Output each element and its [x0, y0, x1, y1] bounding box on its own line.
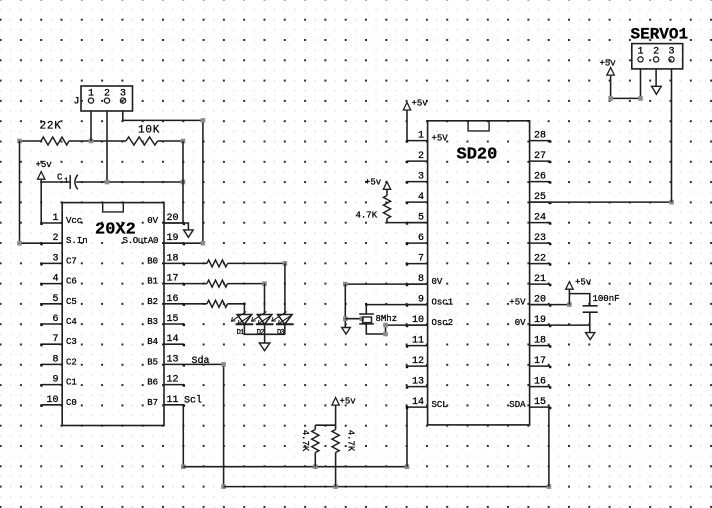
wire 0V to crystal case — [345, 318, 362, 320]
IC U1 pin 1 stub — [40, 223, 62, 225]
svg-text:11: 11 — [167, 395, 179, 406]
IC U1 pin 12 label B6 — [147, 378, 158, 388]
junction C1 row right end — [181, 180, 186, 185]
IC U1 pin 8 number — [52, 354, 58, 365]
power +5v arrow (pin5) — [383, 182, 390, 190]
junction Scl top corner — [181, 464, 186, 469]
svg-text:14: 14 — [167, 334, 179, 345]
svg-text:C7: C7 — [66, 256, 77, 266]
wire Vcc rail down — [40, 182, 42, 223]
svg-text:22K: 22K — [40, 120, 62, 132]
wire servo pin2 drop — [655, 69, 657, 86]
svg-text:6: 6 — [418, 233, 424, 244]
IC U1 pin 16 label B2 — [147, 297, 158, 307]
wire LED D2 cathode drop — [264, 324, 266, 334]
svg-text:+5v: +5v — [36, 160, 53, 170]
wire Scl from pin11 — [182, 405, 184, 467]
IC U1 pin 4 number — [52, 274, 58, 285]
IC U1 pin 8 label C2 — [66, 357, 77, 367]
IC U2 pin 9 label Osc1 — [432, 298, 454, 308]
IC U2 pin 13 number — [412, 377, 424, 388]
capacitor C1 plate — [69, 175, 71, 189]
wire cap to junctions — [76, 181, 183, 183]
svg-text:SD20: SD20 — [457, 145, 498, 164]
svg-text:4: 4 — [418, 192, 424, 203]
IC U1 pin 15 stub — [164, 324, 185, 326]
svg-text:23: 23 — [534, 233, 546, 244]
wire Osc1 row — [366, 304, 427, 306]
svg-text:27: 27 — [534, 151, 546, 162]
junction Sda corner — [221, 362, 226, 367]
wire pin20 extension — [530, 304, 570, 306]
svg-text:18: 18 — [534, 336, 546, 347]
svg-text:+5v: +5v — [412, 99, 429, 109]
wire servo pin3 drop — [671, 69, 673, 202]
IC U2 pin 15 label SDA — [509, 400, 526, 410]
svg-text:C4: C4 — [66, 317, 77, 327]
IC U2 pin 8 number — [418, 274, 424, 285]
svg-text:11: 11 — [412, 336, 424, 347]
IC U1 pin 4 stub — [40, 283, 62, 285]
resistor R4 (pin 17 row) — [184, 280, 265, 287]
IC U2 pin 20 number — [534, 295, 546, 306]
IC U2 pin 25 stub — [530, 202, 552, 204]
IC U1 pin 19 number — [167, 233, 179, 244]
IC U2 pin 16 stub — [530, 386, 552, 388]
label R2 10K — [138, 124, 160, 136]
svg-text:17: 17 — [167, 274, 179, 285]
IC U2 pin 17 stub — [530, 366, 552, 368]
svg-text:C1: C1 — [66, 378, 77, 388]
corner SD20 pin14 — [406, 406, 408, 408]
svg-text:4.7K: 4.7K — [346, 430, 356, 452]
IC U2 pin 26 stub — [530, 181, 552, 183]
IC U2 pin 11 number — [412, 336, 424, 347]
IC U2 pin 10 stub — [406, 325, 428, 327]
resistor R1 22K — [41, 137, 69, 145]
IC U1 pin 2 number — [52, 233, 58, 244]
power +5v arrow (pullups) — [332, 398, 339, 426]
IC U2 pin 13 stub — [406, 386, 428, 388]
svg-text:10K: 10K — [138, 124, 160, 136]
IC U1 pin 5 label C5 — [66, 297, 77, 307]
wire LED D3 cathode drop — [284, 324, 286, 334]
svg-text:13: 13 — [167, 354, 179, 365]
IC U1 pin 9 number — [52, 375, 58, 386]
junction servo +5v corner — [608, 96, 613, 101]
connector J pin 3 circle — [120, 98, 125, 103]
svg-text:+5v: +5v — [575, 278, 592, 288]
wire Osc1 drop to crystal — [365, 305, 367, 314]
connector SERVO1 pin 3 number — [668, 46, 674, 57]
IC U2 pin 19 stub — [530, 325, 552, 327]
wire Sda from pin13 — [184, 364, 224, 486]
svg-text:SDA: SDA — [509, 400, 526, 410]
IC U1 pin 17 label B1 — [147, 277, 158, 287]
svg-text:15: 15 — [167, 314, 179, 325]
svg-text:5: 5 — [52, 294, 58, 305]
IC U2 pin 15 stub — [530, 407, 552, 409]
IC U1 pin 11 label B7 — [147, 398, 158, 408]
resistor R8 4.7K (pin5) — [383, 189, 390, 222]
IC U2 pin 15 number — [534, 397, 546, 408]
IC U2 pin 25 number — [534, 192, 546, 203]
svg-text:Scl: Scl — [184, 395, 202, 407]
junction 0V-crystal tee — [343, 316, 348, 321]
LED D3 — [272, 312, 294, 325]
label +5v (pin5) — [365, 177, 382, 187]
svg-text:B4: B4 — [147, 337, 158, 347]
IC U1 pin 16 number — [167, 294, 179, 305]
corner pin 16 — [243, 303, 245, 305]
junction 0V corner — [343, 282, 348, 287]
svg-text:D1: D1 — [237, 329, 244, 337]
svg-text:SCL: SCL — [432, 400, 448, 410]
IC U1 pin 13 number — [167, 354, 179, 365]
IC U1 pin 7 label C3 — [66, 337, 77, 347]
IC U2 pin 26 number — [534, 172, 546, 183]
junction Osc2 route high — [383, 323, 388, 328]
corner Osc1 — [365, 303, 367, 305]
junction SDA at pullup — [333, 484, 338, 489]
junction 10K right end — [181, 139, 186, 144]
svg-text:S.In: S.In — [66, 236, 88, 246]
ground (20X2 pin20) — [184, 230, 194, 237]
junction pin19 net end — [201, 241, 206, 246]
connector SERVO1 body — [632, 44, 683, 69]
capacitor C1 curved plate — [75, 175, 78, 190]
wire servo pin1 route — [611, 69, 641, 99]
wire pin 16 drop to LED — [243, 304, 245, 315]
svg-text:C6: C6 — [66, 277, 77, 287]
crystal X1 body — [363, 317, 372, 323]
connector SERVO1 pin 1 number — [637, 46, 643, 57]
junction Osc2 route low — [383, 332, 388, 337]
svg-text:C0: C0 — [66, 398, 77, 408]
wire 0V down — [344, 284, 346, 327]
svg-text:Vcc: Vcc — [66, 216, 82, 226]
IC U2 pin 16 number — [534, 377, 546, 388]
IC U2 pin 20 label +5V — [509, 298, 526, 308]
svg-text:2: 2 — [52, 233, 58, 244]
svg-text:3: 3 — [52, 253, 58, 264]
junction pin 17 corner — [262, 281, 267, 286]
svg-text:1: 1 — [418, 131, 424, 142]
IC U2 pin 27 number — [534, 151, 546, 162]
IC U1 pin 1 number — [52, 213, 58, 224]
label D3 — [277, 329, 284, 337]
connector J pin 1 circle — [88, 98, 93, 103]
IC U2 pin 5 number — [418, 213, 424, 224]
wire LED bus to ground — [264, 334, 266, 343]
IC U1 pin 18 label B0 — [147, 256, 158, 266]
resistor R3 (pin 18 row) — [184, 260, 285, 267]
label +5v (pullups) — [340, 397, 357, 407]
power +5v arrow (SD20 pin1) — [403, 102, 410, 140]
svg-text:0V: 0V — [515, 318, 526, 328]
IC U2 pin 14 label SCL — [432, 400, 448, 410]
IC U2 pin 5 stub — [406, 222, 428, 224]
connector SERVO1 pin 2 number — [653, 46, 659, 57]
IC U2 pin 4 stub — [406, 202, 428, 204]
svg-text:24: 24 — [534, 213, 546, 224]
label R6 4.7K — [300, 430, 310, 452]
label Sda — [192, 355, 210, 367]
connector J body — [81, 86, 133, 111]
svg-text:1: 1 — [52, 213, 58, 224]
IC U2 pin 22 number — [534, 254, 546, 265]
ground (100nF) — [586, 333, 595, 340]
IC U1 notch — [103, 203, 124, 212]
junction crystal case — [360, 316, 365, 321]
IC U1 pin 5 number — [52, 294, 58, 305]
IC U2 notch — [468, 121, 489, 131]
junction pin20 end — [567, 302, 572, 307]
IC U2 pin 20 stub — [530, 304, 552, 306]
svg-text:2: 2 — [418, 151, 424, 162]
svg-text:B0: B0 — [147, 256, 158, 266]
resistor R5 (pin 16 row) — [184, 300, 245, 307]
label R7 4.7K — [346, 430, 356, 452]
IC U2 pin 7 stub — [406, 263, 428, 265]
IC U1 pin 10 stub — [40, 405, 62, 407]
wire SCL up to SD20 pin14 — [406, 407, 408, 467]
connector SERVO1 pin 2 circle — [654, 57, 659, 62]
IC U2 pin 23 stub — [530, 243, 552, 245]
IC U2 pin 18 number — [534, 336, 546, 347]
label +5v (SD20 pin1) — [412, 99, 429, 109]
wire J pin2 drop — [106, 111, 108, 182]
svg-text:B3: B3 — [147, 317, 158, 327]
wire crystal to Osc2 — [366, 324, 427, 334]
svg-text:C2: C2 — [66, 357, 77, 367]
junction SDA right end — [547, 484, 552, 489]
svg-text:B7: B7 — [147, 398, 158, 408]
IC U2 pin 27 stub — [530, 161, 552, 163]
svg-text:B5: B5 — [147, 357, 158, 367]
svg-text:1: 1 — [64, 178, 68, 186]
connector J pin 2 number — [104, 88, 110, 99]
junction J pin2 end — [105, 180, 110, 185]
wire pin 17 drop to LED — [264, 284, 266, 315]
IC U2 pin 12 number — [412, 356, 424, 367]
IC U1 pin 13 stub — [164, 364, 185, 366]
label X1 8Mhz — [376, 314, 398, 324]
wire pin25 to servo — [530, 201, 672, 203]
svg-text:C: C — [57, 173, 63, 183]
junction 22K row left end — [17, 139, 22, 144]
IC U2 pin 3 number — [418, 172, 424, 183]
IC U2 pin 21 stub — [530, 284, 552, 286]
svg-text:D2: D2 — [257, 329, 264, 337]
IC U1 PICAXE 20X2 body — [62, 203, 164, 426]
IC U2 pin 10 number — [412, 315, 424, 326]
wire 22K-10K row middle — [69, 140, 126, 142]
svg-text:S.OutA0: S.OutA0 — [123, 236, 158, 246]
svg-text:4: 4 — [52, 274, 58, 285]
IC U2 pin 9 number — [418, 295, 424, 306]
svg-text:8Mhz: 8Mhz — [376, 314, 398, 324]
svg-text:4.7K: 4.7K — [300, 430, 310, 452]
svg-text:12: 12 — [412, 356, 424, 367]
IC U1 pin 6 stub — [40, 324, 62, 326]
IC U1 pin 20 label 0V — [147, 216, 158, 226]
svg-text:16: 16 — [534, 377, 546, 388]
IC U2 pin 9 stub — [406, 304, 428, 306]
svg-text:14: 14 — [412, 397, 424, 408]
wire pin20 up — [568, 289, 570, 304]
IC U1 pin 14 number — [167, 334, 179, 345]
IC U1 pin 13 label B5 — [147, 357, 158, 367]
connector SERVO1 pin 1 circle — [638, 57, 643, 62]
junction J pin3 corner — [201, 118, 206, 123]
IC U2 pin 12 stub — [406, 366, 428, 368]
svg-text:21: 21 — [534, 274, 546, 285]
IC U2 SD20 body — [428, 121, 530, 425]
IC U1 pin 10 label C0 — [66, 398, 77, 408]
IC U1 pin 17 number — [167, 274, 179, 285]
junction SCL right end — [405, 464, 410, 469]
IC U1 pin 14 label B4 — [147, 337, 158, 347]
label C1 — [57, 173, 68, 186]
svg-text:B6: B6 — [147, 378, 158, 388]
wire 20X2 pin19 to J pin3 — [164, 242, 203, 244]
IC U1 pin 12 stub — [164, 384, 185, 386]
IC U2 pin 21 number — [534, 274, 546, 285]
IC U1 pin 18 stub — [164, 263, 185, 265]
IC U1 pin 16 stub — [164, 304, 185, 306]
label D2 — [257, 329, 264, 337]
wire pin19 to ground — [589, 325, 591, 333]
LED D2 — [252, 312, 274, 325]
svg-text:17: 17 — [534, 356, 546, 367]
IC U1 pin 15 number — [167, 314, 179, 325]
crystal X1 bottom plate — [359, 323, 374, 325]
svg-text:6: 6 — [52, 314, 58, 325]
connector SERVO1 title — [631, 25, 689, 43]
resistor R6 4.7K (SCL pullup) — [312, 425, 319, 467]
IC U2 pin 6 number — [418, 233, 424, 244]
svg-text:J: J — [74, 97, 80, 108]
svg-text:28: 28 — [534, 131, 546, 142]
IC U1 pin 2 label S.In — [66, 236, 88, 246]
IC U1 pin 8 stub — [40, 364, 62, 366]
IC U2 pin 19 number — [534, 315, 546, 326]
svg-text:C3: C3 — [66, 337, 77, 347]
wire pin20 to ground — [164, 223, 188, 230]
IC U2 pin 6 stub — [406, 243, 428, 245]
connector J pin 3 number — [120, 88, 126, 99]
svg-text:+5v: +5v — [365, 177, 382, 187]
IC U2 title SD20 — [457, 145, 498, 164]
junction pin25 corner — [669, 200, 674, 205]
IC U2 pin 19 label 0V — [515, 318, 526, 328]
IC U1 pin 5 stub — [40, 304, 62, 306]
IC U1 pin 6 number — [52, 314, 58, 325]
IC U2 pin 28 number — [534, 131, 546, 142]
IC U2 pin 11 stub — [406, 345, 428, 347]
IC U1 pin 14 stub — [164, 344, 185, 346]
IC U1 pin 11 stub — [164, 405, 185, 407]
wire LED cathode bus — [244, 333, 286, 335]
resistor R2 10K — [126, 137, 158, 145]
label R8 4.7K — [356, 211, 378, 221]
ground (crystal) — [342, 328, 351, 335]
IC U1 pin 7 number — [52, 334, 58, 345]
IC U1 pin 3 stub — [40, 263, 62, 265]
wire pullup tee — [315, 424, 335, 426]
wire SCL bus — [183, 466, 407, 468]
junction J pin1 drop — [89, 139, 94, 144]
IC U2 pin 14 stub — [406, 407, 428, 409]
IC U1 title 20X2 — [95, 220, 136, 239]
svg-text:+5V: +5V — [509, 298, 526, 308]
ground (servo pin2) — [652, 86, 662, 94]
IC U2 pin 18 stub — [530, 345, 552, 347]
connector SERVO1 pin 3 circle — [669, 57, 674, 62]
IC U2 pin 28 stub — [530, 140, 552, 142]
IC U2 pin 7 number — [418, 254, 424, 265]
wire 10K rail down — [182, 141, 184, 223]
label C2 100nF — [593, 294, 620, 304]
IC U1 pin 17 stub — [164, 283, 185, 285]
svg-text:+5v: +5v — [600, 58, 617, 68]
svg-text:16: 16 — [167, 294, 179, 305]
label +5v (C1 row) — [36, 160, 53, 170]
power +5v arrow (C1 row) — [38, 172, 45, 182]
wire SDA up to SD20 pin15 — [548, 407, 550, 487]
resistor R7 4.7K (SDA pullup) — [332, 425, 339, 486]
wire 10K right lead — [158, 140, 184, 142]
svg-text:26: 26 — [534, 172, 546, 183]
wire pin19 extension — [530, 324, 590, 326]
wire SDA bus — [224, 486, 549, 488]
wire J pin3 route — [123, 111, 203, 243]
IC U2 pin 4 number — [418, 192, 424, 203]
IC U2 pin 24 number — [534, 213, 546, 224]
IC U2 pin 2 stub — [406, 161, 428, 163]
IC U2 pin 17 number — [534, 356, 546, 367]
IC U1 pin 11 number — [167, 395, 179, 406]
IC U2 pin 23 number — [534, 233, 546, 244]
junction servo pin1 corner — [638, 96, 643, 101]
svg-text:18: 18 — [167, 253, 179, 264]
IC U1 pin 6 label C4 — [66, 317, 77, 327]
crystal X1 top plate — [359, 313, 374, 315]
junction pin 18 corner — [283, 261, 288, 266]
svg-text:22: 22 — [534, 254, 546, 265]
svg-text:13: 13 — [412, 377, 424, 388]
junction left rail corner — [17, 241, 22, 246]
wire 22K row left lead — [20, 140, 42, 142]
svg-text:15: 15 — [534, 397, 546, 408]
IC U1 pin 20 number — [167, 213, 179, 224]
svg-text:100nF: 100nF — [593, 294, 620, 304]
IC U1 pin 3 label C7 — [66, 256, 77, 266]
capacitor C2 100nF — [583, 306, 598, 312]
power +5v arrow (servo) — [607, 68, 614, 76]
IC U1 pin 10 number — [46, 395, 58, 406]
svg-text:7: 7 — [418, 254, 424, 265]
wire pin 18 drop to LED — [284, 263, 286, 314]
IC U1 pin 9 stub — [40, 384, 62, 386]
label Scl — [184, 395, 202, 407]
svg-text:D3: D3 — [277, 329, 284, 337]
IC U1 pin 19 label S.OutA0 — [123, 236, 158, 246]
connector J pin 2 circle — [104, 98, 109, 103]
connector J pin 1 number — [88, 88, 94, 99]
svg-text:0V: 0V — [432, 277, 443, 287]
